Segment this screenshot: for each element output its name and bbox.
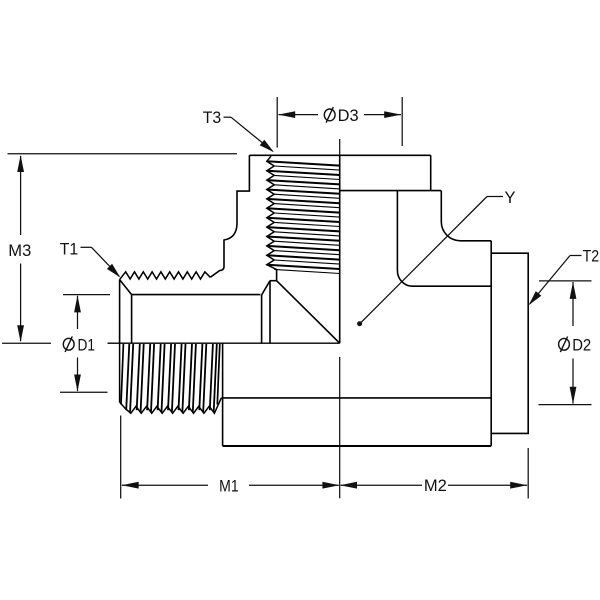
svg-text:D3: D3 <box>338 107 359 125</box>
dimension OD2 with extension lines and arrows <box>539 280 592 282</box>
top port right edge / centerline through part <box>339 155 341 343</box>
tee body: inner shoulder and right port upper line <box>397 191 491 287</box>
svg-text:T3: T3 <box>203 109 222 127</box>
svg-text:Y: Y <box>504 189 515 207</box>
dimension M1 with extension line and arrows <box>120 416 122 499</box>
left port: right chamfer outer edge <box>269 281 271 344</box>
left port: top surface <box>132 294 261 296</box>
tee body: right end cap cylinder <box>491 253 528 433</box>
tee body: top port right edge <box>430 155 432 190</box>
tee body: right face <box>490 241 492 446</box>
tee body: top face <box>249 154 430 156</box>
tee body: right port lower line <box>221 397 491 399</box>
body: 45-degree section chamfer <box>277 281 340 344</box>
svg-text:T1: T1 <box>60 241 79 259</box>
tee body: hex top face <box>340 190 442 192</box>
left port: end chamfer <box>120 280 132 295</box>
left port: chamfer inner edge <box>131 295 133 344</box>
left port: end face edge <box>119 280 121 344</box>
tee body: lower-left vertical edge <box>222 343 224 446</box>
left port: right chamfer inner edge <box>261 295 263 343</box>
vertical centerline through lower body <box>339 357 341 498</box>
svg-text:M1: M1 <box>219 478 239 496</box>
left port axis line <box>108 342 340 344</box>
svg-text:D1: D1 <box>78 336 96 354</box>
left port: thread root ledge <box>270 280 277 282</box>
left port: right chamfer <box>262 281 270 295</box>
top port: thread profile zigzag <box>267 156 277 269</box>
left port: male NPT thread crest zigzag <box>120 272 211 280</box>
svg-text:M3: M3 <box>8 242 31 260</box>
vertical centerline above part <box>339 139 341 155</box>
tee body: bottom edge <box>223 445 492 447</box>
left port: detailed thread bottom silhouette <box>120 343 222 413</box>
svg-text:T2: T2 <box>583 248 600 266</box>
left port: detailed thread face lines <box>126 344 129 410</box>
svg-text:D2: D2 <box>572 337 591 355</box>
top port: thread crest lines <box>267 161 340 165</box>
top port: thread bottom edge <box>276 270 278 281</box>
tee body: upper right shoulder with fillet <box>441 191 491 241</box>
dimension M2 with arrows <box>527 448 529 499</box>
tee body: top port left edge and hex left profile <box>210 155 249 277</box>
dimension OD1 with extension lines and arrows <box>63 294 110 296</box>
svg-text:M2: M2 <box>424 477 447 495</box>
dimension M3 with extension lines and arrows <box>8 153 238 155</box>
dimension OD3 with extension lines and arrows <box>276 97 278 148</box>
